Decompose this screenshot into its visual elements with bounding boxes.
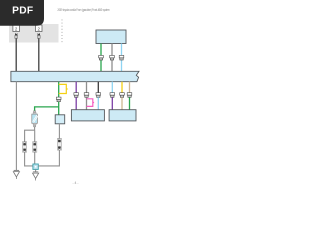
ground G1 [13,170,19,179]
shield jog (yellow) on W7 [59,84,68,93]
svg-text:- 4 -: - 4 - [72,181,78,185]
wire W16 (black / light blue) bus to box A [97,82,99,93]
junction bus bar B1 [11,71,139,81]
fuse F2 [36,25,43,38]
wire W4 (gray) U1 to bus [111,44,113,56]
connector J5 on wire W5 [119,55,124,60]
wire W14 (purple) bus to box A [75,82,77,93]
wire W8 (green) connector to resistor and box [35,102,59,115]
wire W11 (gray) noise filter to ground G2 [35,169,37,172]
resistor R1 (blue body) [32,111,38,127]
connector J19 [127,93,132,98]
noise filter N1 (teal square) [33,164,38,169]
ECU box U1 (top right) [96,30,126,44]
connector J18 [120,93,125,98]
connector J7 on wire W7 [56,97,61,102]
connector J16 [96,93,101,98]
wire W2 (dark) fuse F2 to bus [38,38,40,71]
wire W18 (yellow / tan) bus to box B [121,82,123,93]
wire W5 (light blue) U1 to bus [121,44,123,56]
connector block K2 [33,142,37,153]
wire W9 (gray) resistor to blocks [25,127,35,142]
relay block panel [9,24,59,43]
ECU box A [71,110,104,121]
ground G2 [33,172,39,181]
svg-text:2009 toyota corolla From (gaso: 2009 toyota corolla From (gasoline) Fron… [58,8,110,12]
ECU box B [109,110,136,121]
sensor box U2 (middle) [55,115,64,124]
shield jog (pink) on W15 [87,99,95,107]
connector J15 [84,93,89,98]
wire W10 (gray) blocks to noise filter [25,152,35,166]
PDF badge overlay [0,0,44,26]
wire W17 (light blue / purple) bus to box B [111,82,113,93]
connector J14 [74,93,79,98]
connector block K1 [23,142,27,153]
wire W19 (tan / green) bus to box B [129,82,131,93]
wire W15 (gray) bus to box A [86,82,88,93]
connector J3 on wire W3 [99,55,104,60]
wire W12 (gray) U2 to block K3 [58,124,60,139]
connector J4 on wire W4 [110,55,115,60]
connector J17 [110,93,115,98]
panel boundary dotted line [61,20,63,45]
connector block K3 [57,138,61,150]
svg-text:PDF: PDF [12,6,33,17]
wire W13 (gray) block K3 to noise filter [38,150,59,166]
wire W6 (gray) bus to ground G1 [15,82,17,171]
wire W3 (green) U1 to bus [100,44,102,56]
fuse F1 [13,25,20,38]
wire W7 (green) bus down [58,82,60,98]
wire W1 (dark) fuse F1 to bus [15,38,17,71]
